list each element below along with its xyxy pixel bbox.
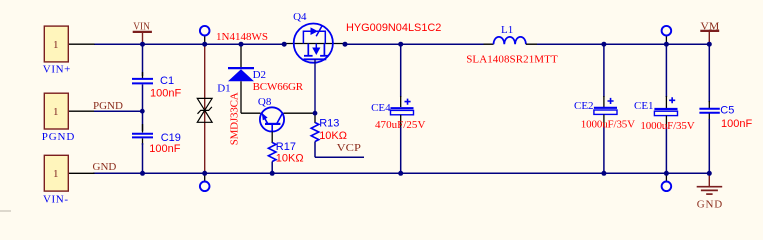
svg-text:SMDJ33CA: SMDJ33CA: [228, 92, 240, 145]
no-connect circle top-right: [662, 26, 672, 44]
svg-text:470uF/25V: 470uF/25V: [375, 119, 425, 131]
connector VIN+ pin 1: [43, 26, 95, 75]
svg-text:1000uF/35V: 1000uF/35V: [581, 118, 635, 130]
capacitor CE4 470uF: [371, 44, 425, 173]
svg-text:L1: L1: [501, 24, 513, 36]
junction dots top bus: [140, 42, 712, 47]
net label GND wire: [93, 161, 117, 173]
capacitor C19: [132, 132, 181, 155]
svg-text:Q4: Q4: [293, 11, 307, 23]
svg-text:100nF: 100nF: [721, 118, 752, 130]
connector VIN- pin 1: [43, 155, 95, 205]
power port VIN: [133, 21, 152, 45]
svg-text:1N4148WS: 1N4148WS: [216, 31, 268, 43]
capacitor C1: [132, 75, 181, 99]
svg-text:BCW66GR: BCW66GR: [253, 81, 304, 93]
TVS diode D1: [197, 44, 240, 173]
diode D2 1N4148WS: [216, 31, 304, 113]
svg-text:VIN-: VIN-: [43, 194, 68, 206]
svg-text:VCP: VCP: [337, 142, 361, 154]
svg-text:R13: R13: [319, 117, 339, 129]
connector PGND pin 1: [42, 93, 95, 143]
svg-text:HYG009N04LS1C2: HYG009N04LS1C2: [346, 22, 441, 34]
svg-text:VIN: VIN: [133, 21, 150, 33]
svg-text:SLA1408SR21MTT: SLA1408SR21MTT: [466, 53, 558, 65]
svg-text:1000uF/35V: 1000uF/35V: [640, 120, 694, 132]
mosfet Q4 HYG009N04LS1C2: [284, 11, 441, 113]
junction dots bottom bus: [140, 171, 712, 176]
capacitor CE2 1000uF: [574, 44, 635, 173]
svg-text:D2: D2: [253, 69, 266, 81]
ground GND: [697, 173, 723, 210]
svg-text:C5: C5: [720, 104, 734, 116]
svg-text:PGND: PGND: [93, 100, 123, 112]
power port VM: [700, 21, 719, 45]
wire C1/C19 vertical branch: [142, 44, 144, 173]
svg-text:GND: GND: [93, 161, 117, 173]
net label PGND wire: [93, 100, 143, 112]
junction dot Q4 gate tee: [313, 111, 318, 116]
no-connect circle top-left: [200, 26, 210, 44]
svg-text:100nF: 100nF: [150, 87, 181, 99]
svg-text:10KΩ: 10KΩ: [319, 130, 347, 142]
svg-text:R17: R17: [276, 141, 296, 153]
net label VCP wire: [315, 142, 364, 158]
capacitor CE1 1000uF: [634, 44, 695, 173]
inductor L1: [466, 24, 558, 65]
faint artifact line bottom-left: [0, 210, 11, 212]
svg-text:PGND: PGND: [42, 131, 75, 143]
svg-text:10KΩ: 10KΩ: [276, 153, 304, 165]
svg-text:CE4: CE4: [371, 102, 391, 114]
svg-text:VIN+: VIN+: [43, 64, 71, 76]
wire top VIN bus: [94, 43, 709, 45]
svg-text:100nF: 100nF: [149, 143, 180, 155]
svg-text:1: 1: [53, 106, 59, 118]
junction dot PGND tee: [140, 109, 145, 114]
no-connect circle bottom-left: [200, 173, 210, 191]
svg-text:1: 1: [53, 39, 59, 51]
svg-text:CE1: CE1: [634, 100, 654, 112]
svg-text:Q8: Q8: [258, 96, 272, 108]
transistor Q8 BCW66GR: [241, 96, 315, 132]
svg-text:C1: C1: [160, 75, 174, 87]
svg-text:CE2: CE2: [574, 100, 594, 112]
svg-text:GND: GND: [697, 198, 723, 210]
no-connect circle bottom-right: [662, 173, 672, 191]
svg-text:VM: VM: [700, 21, 719, 33]
wire bottom GND bus: [93, 172, 709, 174]
svg-text:C19: C19: [161, 132, 181, 144]
resistor R17 10K: [268, 132, 303, 174]
capacitor C5 100nF: [699, 44, 752, 173]
svg-text:1: 1: [53, 168, 59, 180]
resistor R13 10K: [311, 113, 347, 157]
